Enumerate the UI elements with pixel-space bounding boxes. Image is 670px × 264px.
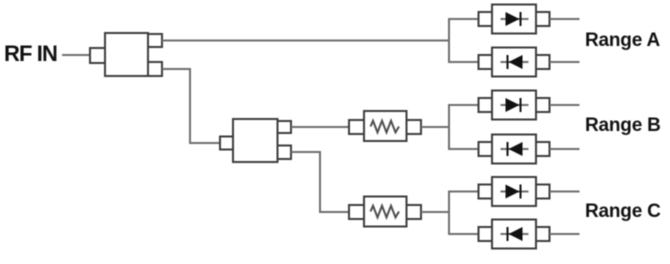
wire: D6 output xyxy=(550,233,580,235)
wire: U2 output 2 horizontal segment xyxy=(291,151,320,153)
resistor zigzag of AT2 xyxy=(371,206,400,218)
wire: D1 output xyxy=(550,18,580,20)
wire: node C to detector D5 xyxy=(448,191,479,193)
splitter U2 output port 2 xyxy=(278,146,292,160)
detector diode D3 (Range B forward) xyxy=(479,91,550,120)
splitter U2 input port xyxy=(220,137,233,150)
wire: node A to detector D2 xyxy=(448,61,479,63)
Range B label xyxy=(585,115,661,136)
attenuator AT2 output port xyxy=(407,205,422,219)
resistor zigzag of AT1 xyxy=(371,121,400,133)
splitter U2 output port 1 xyxy=(278,121,292,133)
wire: D5 output xyxy=(550,191,580,193)
wire: node B to detector D3 xyxy=(448,104,479,106)
wire: node B to detector D4 xyxy=(448,148,479,150)
wire: D4 output xyxy=(550,148,580,150)
svg-text:Range B: Range B xyxy=(585,115,661,136)
svg-text:Range C: Range C xyxy=(585,201,661,222)
attenuator AT1 output port xyxy=(407,120,422,134)
attenuator AT1 body xyxy=(364,111,407,141)
detector diode D1 (Range A forward) xyxy=(479,5,550,34)
node B junction xyxy=(448,105,450,149)
wire: D2 output xyxy=(550,61,580,63)
attenuator AT2 body xyxy=(364,197,407,227)
wire: vertical drop to attenuator AT2 xyxy=(319,151,321,212)
detector diode D5 (Range C forward) xyxy=(479,177,550,206)
splitter U1 body xyxy=(105,33,148,76)
splitter U2 body xyxy=(233,119,278,162)
node A junction xyxy=(448,19,450,62)
wire: horizontal into splitter U2 input xyxy=(189,142,220,144)
node C junction xyxy=(448,192,450,235)
wire: D3 output xyxy=(550,104,580,106)
svg-text:RF IN: RF IN xyxy=(4,41,57,66)
wire: U1 output 1 to node A xyxy=(162,40,449,42)
splitter U1 output port 1 xyxy=(148,34,162,47)
attenuator AT1 input port xyxy=(349,120,364,134)
Range A label xyxy=(585,30,660,51)
wire: node C to detector D6 xyxy=(448,233,479,235)
wire: AT1 to node B xyxy=(421,126,449,128)
wire: U2 output 1 to attenuator AT1 xyxy=(291,126,349,128)
detector diode D2 (Range A reverse) xyxy=(479,48,550,77)
attenuator AT2 input port xyxy=(349,205,364,219)
RF IN label xyxy=(4,41,57,66)
wire: U1 output 2 horizontal segment xyxy=(162,68,190,70)
detector diode D6 (Range C reverse) xyxy=(479,220,550,249)
wire: node A to detector D1 xyxy=(448,18,479,20)
wire: vertical drop to splitter U2 xyxy=(189,68,191,143)
splitter U1 output port 2 xyxy=(148,62,162,76)
wire: horizontal into attenuator AT2 xyxy=(319,211,349,213)
splitter U1 input port xyxy=(90,48,105,63)
detector diode D4 (Range B reverse) xyxy=(479,135,550,164)
wire: RF IN to splitter U1 input xyxy=(62,54,90,56)
svg-text:Range A: Range A xyxy=(585,30,660,51)
wire: AT2 to node C xyxy=(421,211,449,213)
Range C label xyxy=(585,201,661,222)
